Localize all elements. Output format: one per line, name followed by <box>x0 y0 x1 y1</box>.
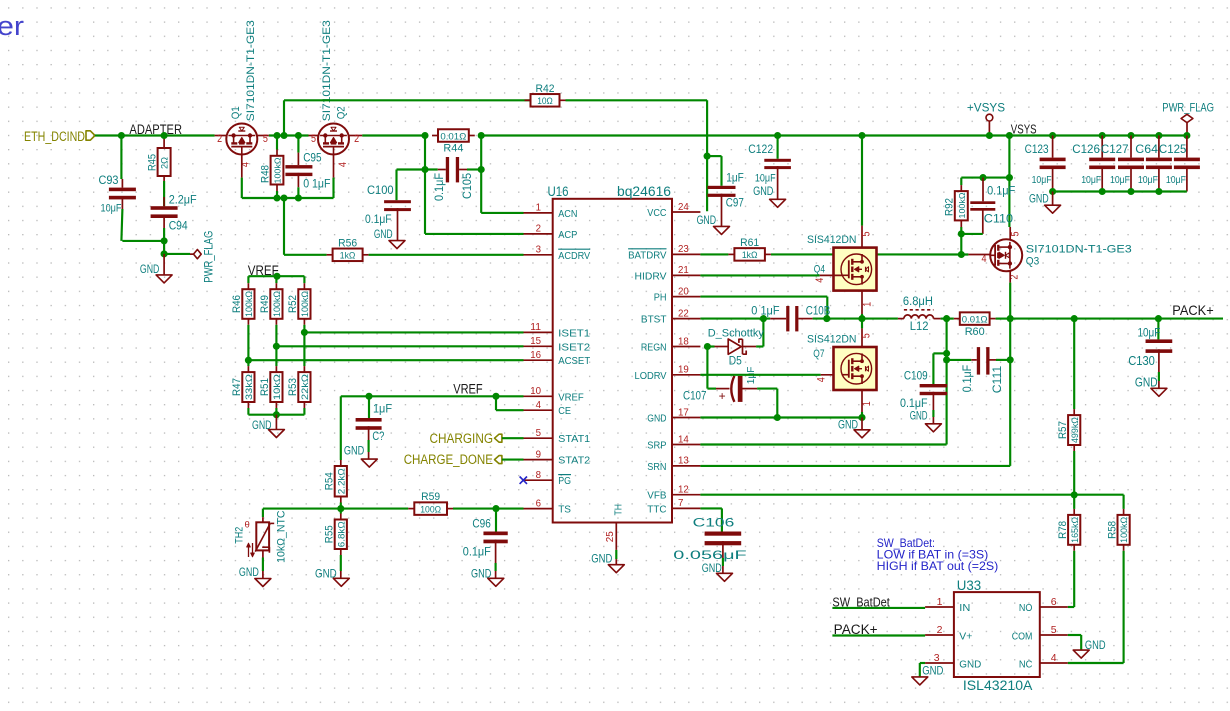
pin 1 IN <box>925 606 954 608</box>
resistor R54 <box>340 460 342 466</box>
junctions C105 <box>421 166 428 173</box>
svg-text:25: 25 <box>604 531 616 542</box>
transistor Q3 SI7101DN-T1-GE3 (vertical) <box>1009 227 1011 239</box>
svg-text:1μF: 1μF <box>726 172 744 184</box>
svg-text:SI7101DN-T1-GE3: SI7101DN-T1-GE3 <box>321 20 333 121</box>
svg-text:1: 1 <box>536 202 542 214</box>
svg-text:CHARGE_DONE: CHARGE_DONE <box>404 452 493 467</box>
wire SRN to IC <box>700 465 1010 467</box>
svg-text:SIS412DN: SIS412DN <box>807 234 857 246</box>
diode D5 D_Schottky <box>707 345 714 347</box>
thermistor TH2 10kOhm_NTC <box>262 509 264 518</box>
svg-text:C93: C93 <box>99 173 119 187</box>
wire ISET1 <box>304 331 523 333</box>
pin 1 ACN (U16 left) <box>524 212 553 214</box>
svg-text:SRN: SRN <box>647 461 666 473</box>
svg-text:R55: R55 <box>324 525 336 543</box>
svg-text:10μF: 10μF <box>1138 327 1161 339</box>
svg-text:24: 24 <box>678 201 689 213</box>
svg-text:ISL43210A: ISL43210A <box>963 678 1033 693</box>
resistor R55 6.8k <box>340 509 342 514</box>
svg-text:R47: R47 <box>231 378 243 396</box>
svg-text:5: 5 <box>1051 624 1057 636</box>
svg-text:1kΩ: 1kΩ <box>742 250 758 260</box>
wire BTST <box>700 318 770 320</box>
capacitor C130 10uF <box>1157 319 1159 340</box>
svg-text:2: 2 <box>217 133 222 145</box>
svg-text:10μF: 10μF <box>1110 174 1130 186</box>
svg-text:R51: R51 <box>259 378 271 396</box>
svg-text:C64: C64 <box>1135 142 1158 156</box>
svg-text:10μF: 10μF <box>1138 174 1158 186</box>
ground GND (C93/C94) <box>163 254 165 275</box>
svg-text:21: 21 <box>678 264 689 276</box>
resistor R42 <box>525 99 531 101</box>
pin 18 REGN (U16 right) <box>672 346 700 348</box>
svg-text:GND: GND <box>838 417 858 431</box>
wire CE drop <box>495 396 497 410</box>
pin 23 BATDRV (U16 right) <box>672 253 700 255</box>
resistor R52 <box>303 283 305 289</box>
capacitor C122 10uF <box>777 136 779 159</box>
wire R92/C110 top row <box>961 177 1009 179</box>
resistor R44 <box>432 135 438 137</box>
svg-text:R44: R44 <box>443 143 463 155</box>
wire rail Q1-Q2 <box>269 134 309 136</box>
wire to C97 <box>707 155 721 157</box>
wire Q2 gate down <box>333 155 335 178</box>
wire TH pad to gnd <box>615 550 617 559</box>
svg-text:COM: COM <box>1012 630 1033 642</box>
pin 5 STAT1 (U16 left) <box>524 437 553 439</box>
pin 17 GND (U16 right) <box>672 417 700 419</box>
pin 9 STAT2 (U16 left) <box>524 459 553 461</box>
svg-text:0 1μF: 0 1μF <box>751 306 779 318</box>
wire caps ground bus <box>1053 190 1187 192</box>
wire riser to ACDRV/R56 <box>283 198 285 255</box>
junctions on gates rail <box>273 194 280 201</box>
svg-text:4: 4 <box>1051 652 1057 664</box>
svg-text:19: 19 <box>678 364 689 376</box>
svg-text:HIGH if BAT out (=2S): HIGH if BAT out (=2S) <box>877 559 999 573</box>
svg-text:L12: L12 <box>910 321 929 333</box>
svg-text:ACSET: ACSET <box>558 355 591 367</box>
resistor R60 <box>954 318 960 320</box>
svg-text:2.2μF: 2.2μF <box>169 192 197 206</box>
ground GND (C109) <box>925 424 941 432</box>
pin 15 ISET2 (U16 left) <box>524 345 553 347</box>
svg-text:TH: TH <box>613 504 625 516</box>
svg-text:GND: GND <box>647 413 667 425</box>
svg-text:2Ω: 2Ω <box>160 157 170 169</box>
svg-text:0.1μF: 0.1μF <box>365 214 392 226</box>
wire TH2 to gnd <box>262 550 264 557</box>
svg-text:GND: GND <box>140 262 160 276</box>
svg-text:C127: C127 <box>1101 142 1129 156</box>
pin 4 CE (U16 left) <box>524 409 553 411</box>
svg-text:GND: GND <box>252 418 272 432</box>
svg-text:GND: GND <box>344 446 364 458</box>
svg-text:C95: C95 <box>303 151 322 165</box>
resistor R51 <box>275 366 277 372</box>
svg-text:10kΩ: 10kΩ <box>272 374 282 400</box>
wire C93 bottom <box>121 199 123 209</box>
svg-text:0.1μF: 0.1μF <box>987 186 1015 198</box>
wire divider bottom rail <box>247 408 249 415</box>
capacitor C109 0.1uF <box>920 384 948 387</box>
transistor Q1 SI7101DN-T1-GE3 <box>215 135 227 137</box>
svg-text:100kΩ: 100kΩ <box>244 291 254 317</box>
svg-text:ISET2: ISET2 <box>558 341 590 353</box>
svg-text:1: 1 <box>861 302 873 307</box>
ground GND (C97) <box>714 226 730 234</box>
junction REGN/D5 <box>704 343 711 350</box>
svg-text:er: er <box>0 11 24 41</box>
svg-text:100kΩ: 100kΩ <box>273 158 283 184</box>
svg-text:R54: R54 <box>324 472 336 490</box>
wire HIDRV to Q4 gate <box>700 274 819 276</box>
transistor Q1 body <box>226 124 257 155</box>
svg-text:C123: C123 <box>1025 142 1049 156</box>
svg-text:10μF: 10μF <box>1081 174 1101 186</box>
svg-text:0.1μF: 0.1μF <box>463 545 491 559</box>
capacitor C100 0.1uF <box>384 200 411 203</box>
svg-text:22: 22 <box>678 307 689 319</box>
svg-text:C109: C109 <box>904 369 928 383</box>
svg-text:GND: GND <box>702 561 722 575</box>
wire PH elbow <box>700 296 827 298</box>
svg-text:6.8kΩ: 6.8kΩ <box>336 521 346 547</box>
wire COM to gnd <box>1068 634 1081 636</box>
svg-text:R92: R92 <box>944 198 956 216</box>
pin 25 TH (U16 bottom) <box>615 523 617 550</box>
svg-text:ACDRV: ACDRV <box>558 250 590 262</box>
resistor R45 2R <box>163 136 165 149</box>
junctions on rail (R48, riser, C95) <box>273 132 280 139</box>
pin 20 PH (U16 right) <box>672 296 700 298</box>
svg-text:12: 12 <box>678 484 689 496</box>
resistor R78 <box>1073 509 1075 515</box>
svg-text:U16: U16 <box>548 184 569 199</box>
wire TTC elbow <box>700 507 722 509</box>
svg-text:R57: R57 <box>1057 421 1069 439</box>
ground GND (power stage) <box>861 418 863 430</box>
svg-text:100kΩ: 100kΩ <box>1119 517 1129 543</box>
svg-text:VSYS: VSYS <box>1011 121 1037 136</box>
svg-text:STAT2: STAT2 <box>558 455 590 467</box>
svg-text:20: 20 <box>678 285 689 297</box>
transistor Q2 body <box>318 124 349 155</box>
svg-text:BTST: BTST <box>641 314 667 326</box>
resistor R55 <box>340 514 342 520</box>
svg-text:R53: R53 <box>287 378 299 396</box>
svg-text:GND: GND <box>922 666 943 678</box>
svg-text:VCC: VCC <box>647 207 667 219</box>
wire SRN column <box>1009 319 1011 466</box>
svg-text:2: 2 <box>354 133 359 145</box>
svg-text:C122: C122 <box>748 142 773 156</box>
pin 3 ACDRV (U16 left) <box>524 254 553 256</box>
capacitor C126 10uF <box>1101 136 1103 158</box>
svg-text:+VSYS: +VSYS <box>967 102 1006 114</box>
svg-text:ADAPTER: ADAPTER <box>129 122 182 137</box>
svg-text:100kΩ: 100kΩ <box>957 193 967 219</box>
svg-text:VFB: VFB <box>647 490 666 502</box>
wire D5 riser <box>762 319 764 347</box>
wire ACP from C100 column <box>424 170 426 234</box>
svg-text:C100: C100 <box>367 183 394 197</box>
svg-text:NO: NO <box>1019 602 1033 614</box>
svg-text:0.1μF: 0.1μF <box>962 365 974 393</box>
svg-text:TS: TS <box>558 504 571 516</box>
pin 22 BTST (U16 right) <box>672 318 700 320</box>
svg-text:R46: R46 <box>231 295 243 313</box>
svg-text:V+: V+ <box>959 630 972 642</box>
capacitor C93 <box>109 188 136 192</box>
svg-text:ACN: ACN <box>558 208 577 220</box>
ground GND (C122) <box>770 199 786 207</box>
svg-text:C96: C96 <box>472 517 491 531</box>
transistor Q7 SIS412DN <box>834 347 877 390</box>
wire VREF to pin10 <box>341 395 524 397</box>
svg-text:IN: IN <box>959 602 970 614</box>
svg-text:TH2: TH2 <box>234 527 246 544</box>
svg-text:C130: C130 <box>1128 353 1155 368</box>
svg-text:9: 9 <box>536 448 542 460</box>
svg-text:LODRV: LODRV <box>635 370 667 382</box>
svg-text:6.8μH: 6.8μH <box>903 296 933 308</box>
svg-text:499kΩ: 499kΩ <box>1070 417 1080 443</box>
svg-text:0.01Ω: 0.01Ω <box>440 131 466 141</box>
capacitor C96 0.1uF <box>495 509 497 532</box>
ground GND (C?) <box>361 459 377 467</box>
svg-text:GND: GND <box>1029 191 1049 205</box>
svg-text:7: 7 <box>678 497 684 509</box>
svg-text:BATDRV: BATDRV <box>628 249 666 261</box>
wire LODRV to Q7 gate <box>700 374 820 376</box>
capacitor C95 0 1uF <box>297 136 299 153</box>
svg-text:ACP: ACP <box>558 229 577 241</box>
svg-text:D_Schottky: D_Schottky <box>708 327 765 339</box>
resistor R61 <box>728 253 734 255</box>
svg-text:17: 17 <box>678 406 689 418</box>
svg-text:0 1μF: 0 1μF <box>303 178 330 190</box>
svg-text:13: 13 <box>678 455 689 467</box>
pin 3 GND <box>925 662 954 664</box>
svg-text:C97: C97 <box>726 196 744 210</box>
wire Q3 source down to PACK line <box>1009 271 1011 282</box>
svg-text:GND: GND <box>239 565 259 579</box>
capacitor C64 10uF <box>1158 136 1160 158</box>
svg-text:U33: U33 <box>957 578 981 593</box>
svg-text:PH: PH <box>654 292 667 304</box>
junction C111/SRN column <box>1007 356 1014 363</box>
svg-text:14: 14 <box>678 433 689 445</box>
svg-text:GND: GND <box>1085 640 1106 652</box>
svg-text:GND: GND <box>1135 376 1158 390</box>
resistor R59 <box>408 508 414 510</box>
wire VREF divider top rail <box>248 275 304 277</box>
wire R56 to pin3 <box>369 254 524 256</box>
pin 5 COM <box>1040 634 1068 636</box>
pin 12 VFB (U16 right) <box>672 494 700 496</box>
svg-text:0.056μF: 0.056μF <box>673 548 746 562</box>
capacitor C? 1uF <box>368 396 370 418</box>
no-connect X on PG pin <box>520 477 527 484</box>
svg-text:Q7: Q7 <box>813 348 824 360</box>
wire Q1 gate down <box>241 155 243 178</box>
junction VFB/R57/R78 <box>1071 491 1078 498</box>
svg-text:TTC: TTC <box>647 503 667 515</box>
svg-text:6: 6 <box>536 497 542 509</box>
svg-text:5: 5 <box>311 133 316 145</box>
svg-text:D5: D5 <box>729 356 742 368</box>
wire PACK+ line <box>1010 318 1223 320</box>
ground GND (U33 COM) <box>1073 650 1089 658</box>
pin 10 VREF (U16 left) <box>524 395 553 397</box>
svg-text:SI7101DN-T1-GE3: SI7101DN-T1-GE3 <box>1026 244 1132 256</box>
svg-text:22kΩ: 22kΩ <box>300 374 310 400</box>
svg-text:15: 15 <box>530 335 541 347</box>
wire R78 to NO pin <box>1073 551 1075 607</box>
wire R58 to NC pin <box>1123 551 1125 663</box>
svg-text:PWR_FLAG: PWR_FLAG <box>204 231 216 283</box>
svg-text:C94: C94 <box>169 219 188 233</box>
capacitor C123 10uF <box>1052 136 1054 158</box>
svg-text:C110: C110 <box>984 214 1013 226</box>
svg-text:ETH_DCIND: ETH_DCIND <box>24 129 85 144</box>
wire Q7 drain <box>861 319 863 329</box>
svg-text:3: 3 <box>934 652 940 664</box>
pin 24 VCC (U16 right) <box>672 211 700 213</box>
wire rail Q2-R44 <box>362 134 425 136</box>
wire VFB row <box>700 494 1074 496</box>
ground GND (TH pad) <box>608 565 624 573</box>
svg-text:PACK+: PACK+ <box>1172 302 1213 318</box>
svg-text:R52: R52 <box>287 295 299 313</box>
capacitor C107 1uF polarized <box>706 347 708 389</box>
resistor R57 <box>1073 409 1075 415</box>
resistor R49 <box>275 283 277 289</box>
svg-text:PWR_FLAG: PWR_FLAG <box>1162 103 1214 115</box>
svg-text:10kΩ_NTC: 10kΩ_NTC <box>276 510 288 562</box>
svg-text:Q3: Q3 <box>1026 256 1040 268</box>
resistor R47 <box>247 366 249 372</box>
wire GND17 row <box>700 416 862 418</box>
pin 2 V+ <box>925 634 954 636</box>
junction dots VSYS rail <box>774 132 781 139</box>
capacitor C110 0.1uF <box>982 178 984 202</box>
svg-text:10μF: 10μF <box>755 172 776 184</box>
wire rail VSYS long <box>481 134 1187 136</box>
svg-text:R56: R56 <box>338 237 357 249</box>
wire Q4 source down <box>861 291 863 314</box>
svg-text:+: + <box>719 389 726 403</box>
svg-text:C?: C? <box>372 431 384 443</box>
svg-text:16: 16 <box>530 349 541 361</box>
ground GND (C100) <box>389 241 405 249</box>
wire ACN from C105 column <box>480 170 482 213</box>
capacitor C127 10uF <box>1130 136 1132 158</box>
resistor R58 <box>1123 509 1125 515</box>
svg-text:GND: GND <box>753 184 774 198</box>
svg-text:GND: GND <box>591 552 612 566</box>
svg-text:33kΩ: 33kΩ <box>244 374 254 400</box>
svg-text:ISET1: ISET1 <box>558 327 590 339</box>
pin 11 ISET1 (U16 left) <box>524 331 553 333</box>
resistor R48 100k <box>276 136 278 150</box>
svg-text:5: 5 <box>536 427 542 439</box>
svg-text:Q1: Q1 <box>230 106 242 119</box>
wire Q7 source to gnd <box>861 390 863 412</box>
svg-text:SIS412DN: SIS412DN <box>807 334 857 346</box>
pin 8 PG (U16 left) <box>524 479 553 481</box>
svg-text:PG: PG <box>558 475 571 487</box>
wire VSYS column to Q3 <box>1008 136 1010 228</box>
svg-text:R58: R58 <box>1106 521 1118 539</box>
svg-text:5: 5 <box>860 232 872 237</box>
pin 13 SRN (U16 right) <box>672 465 700 467</box>
svg-text:5: 5 <box>1010 232 1022 237</box>
ground GND (U33 pin3) <box>912 677 928 685</box>
wire VREF elbow down to R54 <box>340 396 342 460</box>
svg-text:11: 11 <box>530 321 541 333</box>
resistor R56 <box>327 254 333 256</box>
svg-text:NC: NC <box>1019 658 1033 670</box>
svg-text:R61: R61 <box>740 237 759 249</box>
svg-text:165kΩ: 165kΩ <box>1070 517 1080 543</box>
wire C93 top <box>120 136 122 180</box>
pin 6 NO <box>1040 606 1068 608</box>
svg-text:bq24616: bq24616 <box>617 184 671 199</box>
wire C100 top <box>395 170 397 201</box>
pin 2 ACP (U16 left) <box>524 233 553 235</box>
wire R45-C94 <box>163 181 165 206</box>
capacitor C94 <box>151 206 178 210</box>
ground GND (R55) <box>333 578 349 586</box>
svg-text:23: 23 <box>678 243 689 255</box>
svg-text:2.2kΩ: 2.2kΩ <box>336 468 346 494</box>
svg-text:0.01Ω: 0.01Ω <box>962 314 988 324</box>
svg-text:REGN: REGN <box>641 342 667 354</box>
svg-text:4: 4 <box>814 278 826 283</box>
wires divider middles <box>247 325 249 366</box>
capacitor C94 2.2uF <box>163 197 165 206</box>
wire pin3 to gnd <box>920 662 925 664</box>
svg-text:R42: R42 <box>536 83 555 95</box>
wire phase line <box>813 318 898 320</box>
svg-text:R60: R60 <box>965 326 985 338</box>
svg-text:5: 5 <box>263 133 268 145</box>
capacitor C125 10uF <box>1186 136 1188 158</box>
svg-text:CE: CE <box>558 405 571 417</box>
svg-text:SRP: SRP <box>647 440 666 452</box>
svg-text:2: 2 <box>937 624 943 636</box>
wire R54-TSline <box>340 503 342 509</box>
svg-text:CHARGING: CHARGING <box>430 431 494 446</box>
op-amp/IC U16 bq24616 body <box>553 199 672 523</box>
capacitor C10B 0 1uF (bootstrap) <box>770 318 786 320</box>
junction C93/C94 <box>161 237 168 244</box>
wire ADAPTER rail left <box>95 134 215 136</box>
svg-text:R49: R49 <box>259 295 271 313</box>
transistor Q2 SI7101DN-T1-GE3 <box>309 135 319 137</box>
svg-text:VREF: VREF <box>453 382 483 397</box>
wire R42 to VCC column <box>566 99 708 101</box>
pin 14 SRP (U16 right) <box>672 444 700 446</box>
transistor Q4 SIS412DN <box>834 248 877 291</box>
pin 19 LODRV (U16 right) <box>672 374 700 376</box>
